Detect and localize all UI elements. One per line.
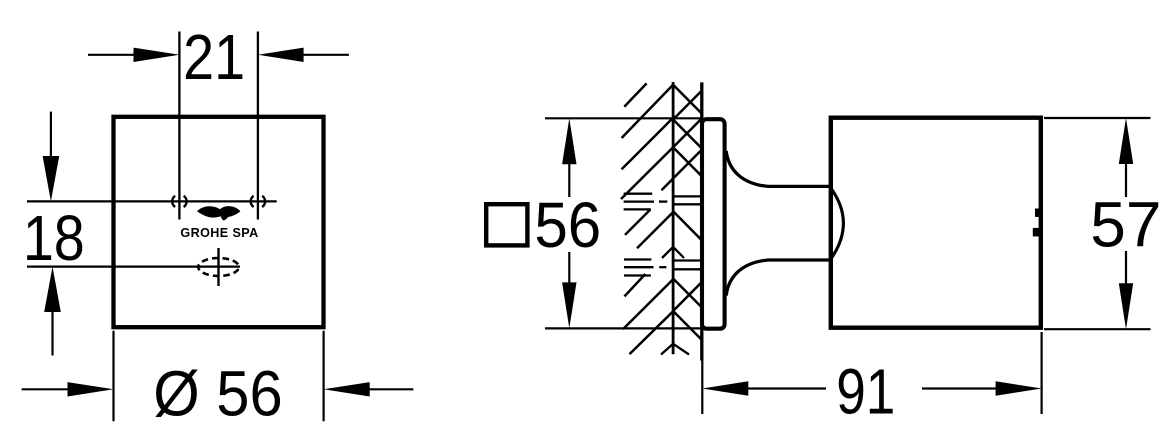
svg-text:18: 18	[23, 202, 85, 273]
dimension 57 line upper segment with up arrow	[1119, 118, 1133, 164]
dimension 21 arrow right	[258, 48, 304, 62]
centerline through upper mounting holes	[27, 200, 277, 202]
neck lower profile	[726, 260, 831, 296]
small chevron marks on wall line	[661, 247, 689, 355]
neck transition arc inside body	[831, 188, 844, 259]
GROHE wing logo	[197, 206, 240, 220]
lower fixing hole dashed ellipse	[198, 258, 239, 276]
neck upper profile	[726, 151, 831, 186]
svg-text:21: 21	[183, 21, 245, 92]
square-56 dimension top extension line	[545, 117, 702, 119]
front view square body	[114, 117, 324, 327]
square-56 dimension line lower segment with down arrow	[568, 252, 570, 288]
wall rough line	[672, 82, 675, 354]
dimension D56 arrow left	[68, 382, 114, 396]
svg-text:GROHE SPA: GROHE SPA	[180, 226, 258, 240]
dimension D56 leader line right	[369, 388, 414, 390]
dimension D56 extension line left	[112, 331, 114, 422]
dimension 21 extension line right	[257, 32, 259, 220]
lower hole centerline through wall (dash-dot)	[624, 260, 702, 276]
clip notch on body right edge	[1035, 209, 1042, 218]
lower fixing hole vertical centerline	[217, 248, 219, 286]
holder body	[831, 118, 1041, 328]
dimension 91 extension line right	[1040, 332, 1042, 414]
square symbol of square-56 label	[486, 204, 527, 245]
dimension 21 leader line left	[88, 54, 135, 56]
svg-text:56: 56	[534, 190, 601, 261]
svg-text:91: 91	[836, 357, 895, 428]
dimension 91 line left segment	[747, 387, 826, 389]
dimension 91 extension line left	[701, 333, 703, 414]
upper hole centerline through wall (dash-dot)	[624, 194, 702, 210]
dimension 21 leader line right	[303, 54, 349, 56]
wall finished surface line	[700, 82, 703, 360]
square-56 dimension bottom extension line	[545, 327, 702, 329]
mounting hole left (dashed circle)	[172, 196, 186, 207]
dimension D56 leader line left	[22, 388, 69, 390]
wall herringbone hatching between wall lines	[673, 85, 702, 340]
dimension 57 line lower segment with down arrow	[1125, 251, 1127, 288]
dimension D56 extension line right	[323, 331, 325, 422]
dimension 57 top extension line	[1044, 117, 1151, 119]
dimension 91 line right segment	[922, 387, 997, 389]
dimension 21 arrow left	[134, 48, 180, 62]
dimension 57 bottom extension line	[1044, 328, 1151, 330]
dimension 18 upper line segment with down arrow	[50, 112, 52, 160]
mounting hole right (dashed circle)	[251, 196, 265, 207]
dimension 21 extension line left	[178, 32, 180, 220]
dimension 91 arrow right	[996, 381, 1042, 395]
dimension 91 arrow left	[702, 381, 748, 395]
wall hatching diagonals left of wall	[621, 83, 673, 354]
square-56 dimension line upper segment with up arrow	[562, 118, 576, 164]
dimension 18 lower line segment with up arrow	[44, 267, 61, 312]
centerline through lower hole	[27, 265, 240, 267]
dimension D56 arrow right	[324, 382, 370, 396]
svg-text:Ø 56: Ø 56	[153, 358, 282, 429]
wall mounting plate (escutcheon)	[702, 119, 725, 329]
svg-text:57: 57	[1090, 189, 1161, 261]
